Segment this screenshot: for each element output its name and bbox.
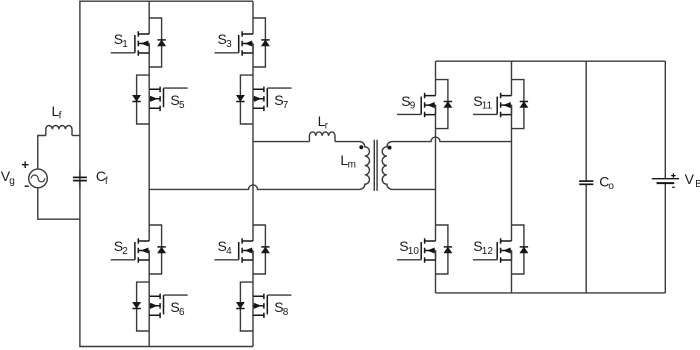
label Lr [318, 113, 329, 132]
svg-text:12: 12 [482, 246, 494, 257]
svg-text:2: 2 [122, 246, 128, 257]
wire leg1 [148, 1, 150, 346]
transistor S6 [132, 282, 187, 331]
transistor S4 [215, 225, 270, 274]
svg-text:B: B [695, 179, 700, 190]
svg-text:V: V [685, 171, 695, 187]
label Vg [1, 168, 15, 187]
svg-text:g: g [9, 176, 15, 187]
wire Vg to Lf [38, 136, 46, 170]
svg-text:5: 5 [179, 100, 185, 111]
transistor S2 [111, 225, 166, 274]
wire secondary top rail [436, 60, 666, 62]
wire primary top rail [79, 0, 253, 2]
transistor S8 [236, 282, 291, 331]
transistor S5 [132, 75, 187, 124]
svg-text:8: 8 [283, 307, 289, 318]
capacitor Cf [73, 170, 87, 188]
inductor Lf [46, 125, 72, 135]
inductor Lr [309, 132, 335, 142]
transistor S10 [397, 225, 452, 274]
transformer core [374, 140, 377, 191]
label Co [599, 173, 614, 192]
transistor S1 [111, 18, 166, 67]
wire Lf to rail [72, 135, 80, 137]
label Lf [52, 103, 62, 122]
polarity - of Vg [25, 185, 29, 187]
label Cf [96, 168, 108, 187]
label Lm [340, 152, 356, 171]
wire Vg bottom return [38, 188, 80, 220]
transformer secondary winding [382, 142, 392, 190]
polarity + of Vg [22, 161, 29, 168]
svg-text:7: 7 [283, 100, 289, 111]
transistor S9 [397, 80, 452, 129]
svg-text:6: 6 [179, 307, 185, 318]
polarity + of VB [671, 173, 675, 177]
svg-text:m: m [348, 160, 356, 171]
transistor S12 [473, 225, 528, 274]
transformer primary winding Lm [360, 142, 370, 190]
wire primary return (leg1 midpoint to transformer) [149, 185, 359, 190]
svg-text:9: 9 [410, 101, 416, 112]
wire secondary top (transformer to leg4, hop over leg3) [392, 137, 511, 142]
svg-text:o: o [608, 181, 614, 192]
wire leg4 [511, 61, 513, 293]
svg-text:f: f [59, 110, 62, 121]
svg-text:3: 3 [226, 39, 232, 50]
wire leg2 [252, 1, 254, 346]
transistor S7 [236, 75, 291, 124]
wire leg2 midpoint to Lr [253, 141, 309, 143]
polarity dot primary [359, 145, 363, 149]
svg-text:1: 1 [122, 39, 128, 50]
AC source Vg [29, 169, 48, 188]
wire primary bottom rail [79, 346, 253, 348]
svg-text:10: 10 [408, 246, 420, 257]
transistor S3 [215, 18, 270, 67]
wire leg3 [435, 61, 437, 293]
svg-text:11: 11 [482, 101, 493, 112]
transistor S11 [473, 80, 528, 129]
svg-text:f: f [105, 176, 108, 187]
wire primary left rail [79, 1, 81, 346]
battery VB [652, 61, 679, 293]
wire secondary bottom rail [436, 292, 666, 294]
wire Lr to transformer [335, 141, 360, 143]
svg-text:4: 4 [226, 246, 232, 257]
capacitor Co [579, 61, 593, 293]
wire secondary bottom (transformer to leg3) [392, 188, 435, 190]
label VB [685, 171, 700, 190]
polarity dot secondary [388, 146, 392, 150]
polarity - of VB [672, 186, 675, 188]
